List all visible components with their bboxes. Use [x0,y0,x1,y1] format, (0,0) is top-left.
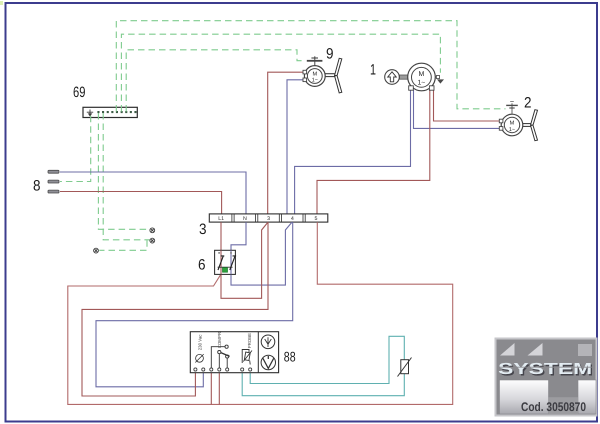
wire blue terminal 4 to motor9 [287,80,304,214]
svg-text:1~: 1~ [312,78,318,84]
svg-text:3: 3 [267,216,270,222]
svg-text:M: M [418,71,424,78]
svg-text:1~: 1~ [509,127,515,133]
ground motor 2 [511,103,513,114]
clock symbol [261,355,275,369]
svg-text:PROBE: PROBE [247,333,252,348]
svg-text:69: 69 [73,84,85,101]
motor 1 [385,63,444,91]
wire green 69 to dot B [103,113,149,240]
controller 88 [190,331,278,373]
probe NTC [398,358,412,377]
svg-text:4: 4 [291,216,294,222]
svg-text:3: 3 [199,221,207,238]
svg-text:8: 8 [33,178,41,195]
wire green dot C branch [99,240,147,250]
svg-text:Cod. 3050870: Cod. 3050870 [521,400,586,414]
wire red motor1 to motor2 [434,90,500,121]
svg-text:1~: 1~ [418,80,426,87]
wire red loop terminal 5 to switch [68,222,453,404]
svg-text:230 Vac: 230 Vac [197,334,202,351]
svg-text:88: 88 [284,349,296,365]
wire red terminal 3 to relay 88 pin1 [82,222,268,396]
wire green 69 to dot A [98,113,149,229]
connector 8 [48,170,59,193]
pins [194,368,252,371]
wire teal relay 88 pin7 to probe top [250,336,404,383]
svg-text:5: 5 [315,216,318,222]
svg-text:SYSTEM: SYSTEM [498,361,592,378]
wire blue switch to terminal 4 [231,222,292,285]
svg-text:M: M [312,71,317,77]
wire teal relay 88 pin6 to probe bottom [242,371,404,396]
wire blue terminal N to switch [231,222,246,250]
wire red relay 88 pin3 down [210,371,212,404]
defrost symbol [261,335,275,349]
node dot C [94,248,99,253]
svg-text:9: 9 [326,46,334,63]
wire green middle loop 69 to motor1 ground [121,34,440,111]
wire red switch through to terminal 3 [221,222,268,298]
svg-text:2: 2 [524,95,532,112]
svg-text:1: 1 [370,62,376,79]
wire blue motor1 to motor2 [414,90,500,128]
lamp 230Vac [196,354,204,362]
svg-text:6: 6 [198,257,206,274]
ground motor 1 [435,76,436,78]
wire green outer loop 69 to motor2 ground [116,21,505,112]
ground motor 9 [314,56,316,65]
logo SYSTEM [496,339,597,416]
wire blue terminal 4 to motor1 [295,90,411,214]
switch 6 [215,250,237,274]
motor 9 [303,56,342,93]
wire blue connector8 pin1 to terminal N [60,172,246,214]
probe input symbol [242,350,249,364]
terminal strip 69 [83,107,137,117]
wire red terminal 3 to motor9 [268,72,304,214]
wire green inner loop 69 to motor9 ground [126,50,305,112]
wire red terminal 5 to motor1 [317,90,430,214]
svg-text:M: M [510,120,515,126]
node dot A [150,228,155,233]
svg-text:COMPR.: COMPR. [217,331,222,349]
wire red connector8 pin3 to terminal L1 [60,192,222,214]
wire green 69 to connector 8 pin2 [60,116,91,182]
svg-text:N: N [243,216,247,222]
svg-text:L1: L1 [218,216,224,222]
relay contact COMPR [211,347,225,368]
wire red relay 88 pin4 down [218,371,220,404]
terminal strip 3 [209,214,327,222]
wire blue terminal 4 to relay 88 pin2 [96,222,293,387]
node dot B [150,238,155,243]
motor 2 [499,102,537,141]
wire: earth dashed loops (green) [60,21,506,251]
